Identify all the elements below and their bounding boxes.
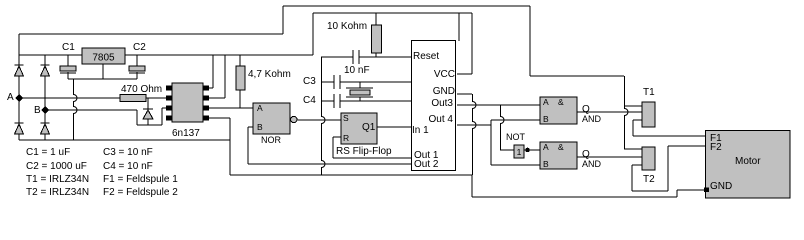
diode D2 column A bottom	[15, 123, 24, 134]
svg-text:Out 2: Out 2	[414, 159, 439, 170]
svg-text:RS Flip-Flop: RS Flip-Flop	[336, 146, 392, 157]
wire NOT feed drop with hop	[501, 105, 505, 150]
counter IC U5	[412, 41, 456, 171]
svg-text:Motor: Motor	[735, 156, 761, 167]
svg-text:In 1: In 1	[412, 125, 429, 136]
wire C4 row right	[340, 100, 411, 102]
wire upper-left rail	[19, 33, 283, 35]
wire 10K bottom stub	[375, 53, 377, 57]
svg-text:&: &	[558, 97, 564, 107]
wire ground drop to bottom rail	[74, 79, 78, 140]
flip-flop U4 RS	[341, 113, 377, 144]
svg-text:C1: C1	[62, 42, 75, 53]
svg-text:C2 = 1000 uF: C2 = 1000 uF	[26, 161, 87, 172]
wire AND2 Q to T2	[577, 156, 642, 158]
wire T2 loop bottom	[632, 190, 668, 192]
svg-text:T2 = IRLZ34N: T2 = IRLZ34N	[26, 187, 89, 198]
diode D5 opto protection	[143, 98, 153, 125]
wire regulator ground row	[68, 78, 137, 80]
node B	[41, 106, 49, 114]
wire crystal bottom stub	[359, 97, 361, 101]
wire NOR output to S with hop	[297, 119, 341, 121]
optocoupler U1 6n137	[166, 83, 209, 122]
wire C2 top stub	[136, 55, 138, 66]
wire VCC vertical	[471, 13, 473, 74]
svg-text:4,7 Kohm: 4,7 Kohm	[248, 69, 291, 80]
wire 10K top stub	[375, 13, 377, 25]
wire ground into motor	[677, 189, 706, 191]
resistor R3 10 Kohm	[372, 25, 382, 53]
wire column B middle	[44, 76, 46, 123]
regulator U2 7805	[82, 48, 125, 64]
wire C1 bottom stub	[67, 72, 69, 79]
wire transistor supply vertical	[625, 76, 628, 149]
diode D4 column B bottom	[41, 123, 50, 134]
wire opto pin2r riser	[224, 55, 226, 98]
wire AND2 B row	[491, 164, 540, 166]
wire NOR A row	[203, 107, 253, 109]
capacitor C5 10 nF	[353, 50, 359, 64]
wire column A top	[18, 34, 20, 65]
wire T1 supply stub	[624, 105, 642, 107]
wire reset row left	[321, 56, 353, 58]
wire NOT output to AND2 A	[524, 149, 540, 151]
wire Out4 row	[457, 124, 491, 126]
gate U8 AND2	[540, 142, 577, 169]
svg-text:AND: AND	[582, 159, 602, 169]
wire opto pin3 riser	[161, 108, 163, 125]
wire Out2 row	[248, 163, 411, 165]
wire C3 row right	[340, 81, 411, 83]
wire 4.7K bottom stub	[239, 90, 241, 108]
svg-text:NOR: NOR	[261, 135, 282, 145]
wire AND1 Q to T1 with hop	[577, 111, 642, 113]
wire column B top	[44, 55, 46, 65]
wire column B bottom	[44, 134, 46, 140]
svg-text:C3: C3	[303, 76, 316, 87]
wire T2 loop riser	[667, 146, 669, 191]
svg-text:T1: T1	[643, 87, 655, 98]
wire VCC pin row	[457, 73, 472, 75]
resistor R2 4,7 Kohm	[236, 66, 245, 90]
wire opto pin1 riser	[212, 55, 214, 88]
svg-text:470 Ohm: 470 Ohm	[121, 84, 162, 95]
capacitor C4	[334, 94, 340, 108]
junction NOT output dot	[525, 148, 530, 153]
wire 4.7K top stub	[239, 55, 241, 66]
wire opto pin3 stub	[162, 107, 166, 109]
wire resistor to opto pin2	[146, 97, 166, 99]
wire GND pin row	[457, 93, 472, 95]
capacitor C3	[334, 75, 340, 89]
wire crystal top stub	[359, 82, 361, 88]
wire C1 top stub	[67, 55, 69, 66]
wire Out3 row to AND1 A	[457, 104, 540, 106]
wire reset row right	[359, 56, 411, 58]
transistor T1	[642, 102, 655, 127]
wire +12V rail left drop	[282, 6, 284, 34]
svg-text:T2: T2	[643, 174, 655, 185]
wire +12V feed to transistors	[530, 75, 624, 77]
wire Out1 row	[333, 157, 411, 159]
svg-text:&: &	[558, 142, 564, 152]
wire opto pin1 stub	[203, 87, 213, 89]
wire column A middle	[18, 76, 20, 123]
wire 5V top rail	[313, 12, 472, 14]
svg-text:10 Kohm: 10 Kohm	[327, 21, 367, 32]
svg-text:VCC: VCC	[434, 69, 455, 80]
wire T2 source stub	[632, 164, 642, 166]
svg-text:B: B	[543, 159, 549, 169]
wire AND1 B row	[491, 119, 540, 121]
svg-text:AND: AND	[582, 114, 602, 124]
wire ground bottom run	[472, 196, 677, 198]
wire node B row with hop	[45, 109, 137, 111]
svg-text:B: B	[543, 114, 549, 124]
wire ground long row	[230, 174, 472, 176]
wire NOR B stub	[248, 126, 253, 128]
svg-text:F2: F2	[710, 142, 722, 153]
svg-text:F1 = Feldspule 1: F1 = Feldspule 1	[103, 174, 178, 185]
wire Out4 riser	[490, 120, 492, 165]
wire C3 row left	[321, 81, 334, 83]
svg-text:A: A	[257, 103, 263, 113]
svg-text:T1 = IRLZ34N: T1 = IRLZ34N	[26, 174, 89, 185]
wire C4 row left	[321, 100, 334, 102]
wire ground rise	[676, 190, 678, 197]
wire F1 row to motor	[633, 135, 706, 137]
wire raw rail into 7805	[19, 54, 82, 56]
wire opto pin4 stub	[203, 117, 230, 119]
svg-text:1: 1	[517, 147, 522, 157]
transistor T2	[642, 147, 655, 170]
wire column A bottom	[18, 134, 20, 140]
wire T2 source drop	[631, 165, 633, 191]
wire node A row with hop	[19, 97, 120, 99]
wire top +12V rail	[283, 5, 530, 7]
svg-text:A: A	[7, 92, 14, 103]
wire Q1 to In1	[377, 126, 411, 128]
svg-text:F2 = Feldspule 2: F2 = Feldspule 2	[103, 187, 178, 198]
wire 5V riser	[312, 13, 314, 55]
wire opto pin4 ground drop	[229, 118, 231, 175]
svg-text:6n137: 6n137	[172, 128, 200, 139]
wire NOT input stub	[500, 149, 514, 151]
wire C2 bottom stub	[136, 72, 138, 79]
svg-text:Reset: Reset	[413, 51, 439, 62]
motor M1	[704, 131, 790, 199]
gate U7 AND1	[540, 97, 577, 124]
resistor R1 470 Ohm	[120, 95, 146, 102]
wire 5V rail right of 7805	[125, 54, 313, 56]
svg-text:R: R	[343, 133, 349, 143]
svg-text:C2: C2	[133, 42, 146, 53]
gate U3 NOR	[253, 103, 297, 134]
wire NOR B drop	[247, 127, 249, 164]
wire opto pin2r stub	[203, 97, 225, 99]
wire 7805 ground stub	[102, 64, 104, 79]
gate U6 NOT	[514, 145, 524, 158]
wire capacitor bus vertical with hop	[322, 57, 326, 175]
wire F2 row to motor	[668, 145, 706, 147]
node A	[15, 94, 23, 102]
svg-text:GND: GND	[433, 86, 455, 97]
capacitor C2	[129, 66, 145, 73]
wire T1 source drop	[632, 120, 634, 136]
svg-text:C3 = 10 nF: C3 = 10 nF	[103, 147, 153, 158]
wire R input drop	[332, 137, 334, 158]
svg-text:Out3: Out3	[431, 98, 453, 109]
capacitor C1	[60, 66, 76, 73]
wire T1 source stub	[633, 119, 642, 121]
svg-text:NOT: NOT	[506, 132, 526, 142]
svg-text:7805: 7805	[92, 53, 115, 64]
wire +12V rail right drop	[529, 6, 531, 76]
wire bottom common rail	[19, 139, 230, 141]
svg-text:A: A	[543, 97, 549, 107]
svg-text:A: A	[543, 142, 549, 152]
wire node B drop	[136, 110, 138, 125]
svg-text:C4: C4	[303, 95, 316, 106]
svg-text:Out 4: Out 4	[429, 114, 454, 125]
wire IC top pin stub	[458, 13, 460, 41]
wire T2 supply stub	[624, 148, 642, 150]
wire opto input lower row	[137, 124, 162, 126]
wire R input stub	[333, 136, 341, 138]
svg-text:10 nF: 10 nF	[344, 65, 370, 76]
crystal X1	[346, 88, 373, 97]
svg-text:B: B	[34, 105, 41, 116]
svg-text:B: B	[257, 122, 263, 132]
svg-text:C1 = 1 uF: C1 = 1 uF	[26, 147, 70, 158]
svg-text:GND: GND	[710, 181, 732, 192]
svg-text:S: S	[343, 113, 349, 123]
diode D1 column A top	[15, 65, 24, 76]
svg-text:C4 = 10 nF: C4 = 10 nF	[103, 161, 153, 172]
wire ground drop right	[471, 175, 473, 197]
wire GND vertical with hops	[473, 94, 477, 175]
diode D3 column B top	[41, 65, 50, 76]
svg-text:Q1: Q1	[362, 122, 376, 133]
